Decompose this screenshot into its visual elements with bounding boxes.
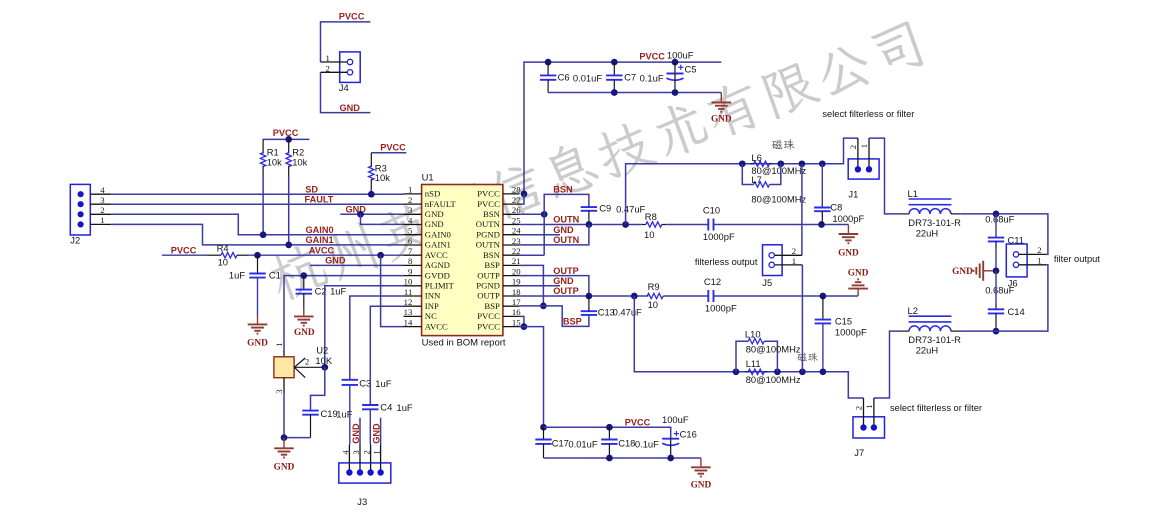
junction C11 top: [993, 211, 1000, 218]
svg-text:GND: GND: [711, 114, 732, 124]
svg-text:22uH: 22uH: [916, 227, 938, 238]
junction C7 bottom: [611, 89, 618, 96]
label R9: [648, 281, 660, 292]
pin 15 stub (U1): [503, 326, 520, 328]
wire PGND stub (pin24): [520, 234, 560, 236]
svg-text:PVCC: PVCC: [273, 128, 299, 138]
net label SD: [305, 184, 318, 194]
note select filterless or filter (top): [822, 109, 914, 119]
op-amp U1 body: [422, 185, 503, 336]
svg-text:1: 1: [792, 256, 796, 266]
net label BSP: [563, 317, 582, 327]
pin 8 stub (U1): [404, 264, 422, 266]
pin name GAIN1 (6): [425, 240, 451, 250]
wire top gnd rail: [548, 92, 721, 94]
ground (snubber N): [839, 225, 859, 244]
capacitor C1: [249, 255, 265, 316]
capacitor C7: [606, 62, 622, 92]
junction C8 top: [819, 160, 826, 167]
wire PGND stub (pin19): [520, 285, 560, 287]
junction R2 top: [285, 136, 292, 143]
label C19: [321, 408, 338, 419]
value 10 (R4): [218, 257, 228, 268]
pin name BSN (26): [483, 209, 501, 219]
label C8: [830, 202, 842, 213]
label R4: [217, 242, 229, 253]
label C15: [835, 316, 852, 327]
pin name PVCC (27): [477, 199, 500, 209]
value 1uF (C4): [397, 402, 413, 413]
wire PLIMIT net: [325, 286, 404, 368]
ground text GND (snubber P): [848, 268, 869, 278]
svg-text:U1: U1: [422, 172, 434, 183]
value 22uH (L1): [916, 227, 938, 238]
svg-text:L10: L10: [745, 329, 761, 340]
wire pin16 to pin15: [520, 316, 524, 326]
wire L2 to J7 pin1: [874, 331, 900, 398]
ground text GND (snubber N): [838, 248, 859, 258]
svg-text:15: 15: [512, 317, 521, 327]
svg-text:1000pF: 1000pF: [705, 303, 737, 314]
pin 3 stub (U1): [404, 213, 422, 215]
pin name GND (3): [425, 209, 444, 219]
resistor R2: [286, 139, 291, 176]
wire R1 to GAIN0: [262, 176, 264, 235]
power port PVCC (R1 R2): [273, 128, 299, 138]
svg-text:GAIN1: GAIN1: [306, 235, 334, 245]
svg-text:AVCC: AVCC: [425, 321, 448, 331]
value 1000pF (C10): [703, 231, 735, 242]
net label OUTP (pin20): [553, 266, 579, 276]
wire J4 pin 2 to GND: [321, 72, 371, 112]
label R1: [267, 147, 279, 158]
value 80@100MHz (L7): [751, 194, 806, 205]
svg-text:C1: C1: [269, 270, 281, 281]
junction R1 GAIN0: [260, 231, 267, 238]
label C17: [552, 438, 569, 449]
pin number 1 (J6): [1037, 256, 1041, 266]
power port PVCC (bottom rail): [625, 417, 651, 427]
resistor R9: [647, 293, 666, 298]
svg-text:22uH: 22uH: [916, 344, 938, 355]
pin name PVCC (16): [477, 311, 500, 321]
wire OUTP row: [520, 295, 648, 297]
svg-text:BSN: BSN: [483, 209, 501, 219]
svg-text:C19: C19: [321, 408, 338, 419]
svg-text:2: 2: [100, 205, 104, 215]
svg-text:0.01uF: 0.01uF: [573, 72, 602, 83]
junction pot gnd: [281, 434, 288, 441]
value 1000pF (C15): [835, 327, 867, 338]
pin number 2 (U2): [305, 357, 309, 367]
pin 23 stub (U1): [503, 244, 520, 246]
svg-text:BSN: BSN: [553, 185, 573, 195]
capacitor C6: [540, 62, 556, 92]
wire C19 to gnd node: [284, 437, 311, 439]
svg-text:OUTP: OUTP: [553, 286, 579, 296]
wire pin17 stub: [520, 305, 544, 307]
wire FAULT net: [111, 203, 403, 205]
svg-text:7: 7: [408, 246, 413, 256]
svg-text:10: 10: [648, 299, 658, 310]
junction J5 pin1 branch: [799, 368, 806, 375]
pin number 1 (J7): [864, 404, 874, 408]
value 1uF (C1): [229, 270, 245, 281]
svg-text:AVCC: AVCC: [425, 250, 448, 260]
label L1: [908, 188, 918, 199]
pin number 1 (J3): [372, 450, 382, 454]
svg-text:OUTN: OUTN: [553, 215, 579, 225]
svg-text:OUTP: OUTP: [477, 291, 500, 301]
svg-text:C7: C7: [624, 71, 636, 82]
wire PVCC rail R1 R2: [263, 138, 310, 140]
label C12: [704, 276, 721, 287]
pin number 14 (U1): [404, 317, 413, 327]
pin 19 stub (U1): [503, 285, 520, 287]
svg-text:2: 2: [1037, 245, 1041, 255]
junction OUTN to beads: [622, 221, 629, 228]
svg-text:2: 2: [848, 145, 858, 149]
label C16: [680, 428, 697, 439]
wire bottom rail: [544, 427, 671, 439]
wire pin3 to pin4: [361, 214, 404, 224]
ferrite bead L7: [742, 164, 781, 187]
label C6: [558, 71, 570, 82]
svg-text:1: 1: [408, 185, 412, 195]
capacitor C8: [814, 164, 830, 225]
svg-text:4: 4: [408, 215, 413, 225]
label C3: [359, 377, 371, 388]
pin 25 stub (U1): [503, 224, 520, 226]
pin name OUTN (23): [476, 240, 501, 250]
pin number 2 (J3): [362, 450, 372, 454]
svg-text:PVCC: PVCC: [477, 199, 500, 209]
pin 7 stub (U1): [404, 254, 422, 256]
svg-text:10: 10: [404, 277, 413, 287]
wire pin22 stub: [520, 254, 545, 256]
svg-text:2: 2: [408, 195, 412, 205]
pin 26 stub (U1): [503, 213, 520, 215]
svg-text:OUTN: OUTN: [553, 235, 579, 245]
ferrite bead L11: [745, 369, 768, 374]
label C9: [599, 202, 611, 213]
svg-text:11: 11: [404, 287, 412, 297]
svg-text:GND: GND: [340, 103, 361, 113]
pin 11 stub (U1): [404, 295, 422, 297]
designator J1: [848, 188, 858, 199]
pin 22 stub (U1): [503, 254, 520, 256]
ground (filter mid): [974, 261, 993, 281]
label C13: [598, 306, 615, 317]
wire INP net: [370, 306, 403, 405]
note Used in BOM report: [422, 337, 506, 348]
svg-text:C17: C17: [552, 438, 569, 449]
svg-text:AGND: AGND: [425, 260, 450, 270]
svg-text:GAIN0: GAIN0: [425, 229, 452, 239]
wire AGND net: [310, 264, 404, 266]
value 0.47uF (C13): [613, 306, 642, 317]
ground (U2): [274, 438, 294, 458]
svg-text:0.01uF: 0.01uF: [568, 439, 597, 450]
net label GND (pin8): [325, 256, 346, 266]
svg-text:3: 3: [100, 195, 104, 205]
pin name INP (12): [425, 301, 439, 311]
svg-text:PVCC: PVCC: [625, 417, 651, 427]
capacitor C9: [581, 207, 597, 224]
pin number 4 (U1): [408, 215, 413, 225]
svg-text:select filterless or filter: select filterless or filter: [822, 109, 914, 119]
svg-text:C3: C3: [359, 377, 371, 388]
pin name PVCC (15): [477, 321, 500, 331]
wire J1 pin1 to L1: [869, 138, 900, 214]
pin 1 stub (U1): [404, 193, 422, 195]
svg-text:J7: J7: [854, 447, 864, 458]
svg-text:INN: INN: [425, 291, 441, 301]
capacitor C13: [581, 311, 597, 315]
junction J5 pin2 branch: [799, 160, 806, 167]
svg-text:0.68uF: 0.68uF: [985, 214, 1014, 225]
pin name GAIN0 (5): [425, 229, 452, 239]
pin number 19 (U1): [512, 277, 521, 287]
pin name BSP (17): [484, 301, 500, 311]
svg-text:BSP: BSP: [484, 301, 500, 311]
svg-text:BSP: BSP: [484, 260, 500, 270]
svg-text:R8: R8: [645, 211, 657, 222]
pin name GND (4): [425, 219, 444, 229]
resistor R3: [369, 153, 374, 188]
junction C17 top: [540, 424, 547, 431]
svg-text:J6: J6: [1008, 277, 1018, 288]
pin number 11 (U1): [404, 287, 412, 297]
svg-text:L7: L7: [751, 174, 761, 185]
wire pin27 branch: [520, 194, 524, 204]
capacitor C16 polarized: [662, 431, 679, 458]
svg-text:10k: 10k: [375, 172, 390, 183]
svg-text:C5: C5: [685, 64, 697, 75]
pin name AGND (8): [425, 260, 450, 270]
pin 21 stub (U1): [503, 264, 520, 266]
label C18: [618, 438, 635, 449]
pin name BSP (21): [484, 260, 500, 270]
pin number 23 (U1): [512, 236, 521, 246]
wire J2.2 to GAIN0: [111, 214, 403, 234]
power port PVCC (J4): [339, 11, 365, 21]
wire J3 pin1 stub: [380, 418, 382, 445]
junction C18 top: [606, 424, 613, 431]
potentiometer U2: [274, 351, 325, 394]
power port PVCC (R4): [171, 246, 197, 256]
svg-text:C18: C18: [618, 438, 635, 449]
pin name PGND (19): [476, 281, 500, 291]
ground (C1): [248, 316, 268, 333]
wire SD net: [111, 193, 403, 195]
svg-text:U2: U2: [316, 344, 328, 355]
pin name OUTP (18): [477, 291, 500, 301]
designator J4: [339, 82, 349, 93]
junction L6 right: [777, 160, 784, 167]
value 100uF (C16): [662, 414, 689, 425]
svg-text:J1: J1: [848, 188, 858, 199]
ground text GND (U2): [274, 462, 295, 472]
svg-text:GAIN1: GAIN1: [425, 240, 451, 250]
svg-text:1: 1: [864, 404, 874, 408]
value 0.1uF (C18): [635, 439, 659, 450]
svg-text:C14: C14: [1008, 306, 1025, 317]
wire R9 to C12: [666, 295, 708, 297]
value 0.47uF (C9): [616, 203, 645, 214]
wire PVCC to J4 pin 1: [321, 22, 371, 62]
power port PVCC (R3): [380, 143, 406, 153]
designator J2: [70, 234, 80, 245]
pin name GVDD (9): [425, 270, 450, 280]
net label BSN: [553, 185, 573, 195]
capacitor C2: [296, 276, 312, 312]
svg-text:C15: C15: [835, 316, 852, 327]
svg-text:J2: J2: [70, 234, 80, 245]
svg-text:PVCC: PVCC: [380, 143, 406, 153]
pin name nFAULT (2): [425, 199, 457, 209]
label cizhu (bottom): [797, 352, 817, 361]
pin name BSN (22): [483, 250, 501, 260]
pin number 24 (U1): [512, 226, 521, 236]
svg-text:23: 23: [512, 236, 521, 246]
ground (bottom rail): [691, 458, 711, 477]
label C5: [685, 64, 697, 75]
wire J6 pin1 to L2: [996, 265, 1048, 331]
pin name PLIMIT (10): [425, 281, 455, 291]
capacitor C12: [708, 290, 713, 302]
wire L1 to J6 pin2: [960, 214, 1048, 255]
svg-text:PVCC: PVCC: [171, 246, 197, 256]
pin 28 stub (U1): [503, 193, 520, 195]
ground text GND (top rail): [711, 114, 732, 124]
svg-text:GND: GND: [952, 267, 973, 277]
designator J7: [854, 447, 864, 458]
note filter output: [1054, 254, 1100, 264]
svg-text:1: 1: [325, 53, 329, 63]
junction C5 bottom: [672, 89, 679, 96]
svg-text:10k: 10k: [292, 156, 307, 167]
wire OUTN beads row: [626, 138, 858, 224]
junction L6 left: [739, 160, 746, 167]
ground (C2): [294, 306, 314, 326]
svg-text:filterless output: filterless output: [695, 257, 758, 267]
svg-text:PGND: PGND: [476, 229, 500, 239]
svg-text:GND: GND: [553, 225, 574, 235]
svg-text:GND: GND: [325, 256, 346, 266]
pin name OUTN (25): [476, 219, 501, 229]
svg-text:6: 6: [408, 236, 413, 246]
svg-text:1000pF: 1000pF: [832, 213, 864, 224]
svg-text:OUTP: OUTP: [477, 270, 500, 280]
label C4: [380, 401, 392, 412]
junction pin15: [521, 323, 528, 330]
pin name NC (13): [425, 311, 437, 321]
svg-text:PVCC: PVCC: [477, 321, 500, 331]
svg-text:AVCC: AVCC: [309, 246, 335, 256]
svg-text:OUTP: OUTP: [553, 266, 579, 276]
pin 17 stub (U1): [503, 305, 520, 307]
svg-text:PGND: PGND: [476, 281, 500, 291]
capacitor C19: [302, 411, 318, 438]
svg-text:PVCC: PVCC: [477, 311, 500, 321]
junction pin3/pin4 gnd: [357, 211, 364, 218]
label L10: [745, 329, 761, 340]
junction C1 top: [254, 252, 261, 259]
wire pin20 to OUTP: [520, 276, 589, 296]
junction L10 left: [733, 368, 740, 375]
pin number 13 (U1): [404, 307, 413, 317]
ground text GND (bottom rail): [691, 480, 712, 490]
value DR73-101-R (L2): [908, 334, 961, 345]
net label GAIN1: [306, 235, 334, 245]
connector J1: [848, 138, 879, 179]
pin number 3 (J3): [351, 450, 361, 454]
pin number 2 (J2): [100, 205, 104, 215]
svg-text:GND: GND: [425, 219, 444, 229]
pin number 2 (J1): [848, 145, 858, 149]
svg-text:OUTN: OUTN: [476, 240, 501, 250]
pin number 4 (J2): [100, 185, 105, 195]
pin 27 stub (U1): [503, 203, 520, 205]
wire INN net: [350, 296, 404, 380]
connector J3: [339, 445, 391, 484]
svg-text:GND: GND: [838, 248, 859, 258]
wire C10 to gnd stub: [714, 224, 849, 226]
svg-text:8: 8: [408, 256, 413, 266]
svg-text:2: 2: [325, 63, 329, 73]
svg-text:L6: L6: [751, 152, 761, 163]
label C14: [1008, 306, 1025, 317]
pin number 18 (U1): [512, 287, 521, 297]
svg-text:14: 14: [404, 317, 413, 327]
pin 14 stub (U1): [404, 326, 422, 328]
wire PVCC rail R3: [371, 152, 406, 154]
wire to J5 pin1: [801, 265, 803, 372]
net label GND (J3 pin1): [371, 423, 381, 444]
wire OUTN row: [520, 224, 642, 226]
pin name AVCC (14): [425, 321, 448, 331]
wire BSN link: [544, 194, 589, 255]
svg-text:INP: INP: [425, 301, 439, 311]
label C7: [624, 71, 636, 82]
pin number 27 (U1): [512, 195, 521, 205]
svg-text:select filterless or filter: select filterless or filter: [890, 403, 982, 413]
junction C5 top: [672, 59, 679, 66]
junction C9 OUTN: [586, 221, 593, 228]
svg-text:C9: C9: [599, 202, 611, 213]
svg-text:1000pF: 1000pF: [835, 327, 867, 338]
pin number 20 (U1): [512, 266, 521, 276]
junction L10 right: [774, 368, 781, 375]
pin number 6 (U1): [408, 236, 413, 246]
note select filterless or filter (bottom): [890, 403, 982, 413]
value 10k (R2): [292, 156, 307, 167]
capacitor C4: [362, 405, 378, 445]
svg-text:C10: C10: [703, 204, 720, 215]
junction filter midpoint: [993, 267, 1000, 274]
svg-text:L2: L2: [908, 305, 918, 316]
net label GND (pin24): [553, 225, 574, 235]
value 0.68uF (C14): [985, 285, 1014, 296]
capacitor C15: [815, 296, 831, 372]
pin number 25 (U1): [512, 215, 521, 225]
pin number 21 (U1): [512, 256, 521, 266]
svg-text:1: 1: [372, 450, 382, 454]
label R8: [645, 211, 657, 222]
svg-text:L1: L1: [908, 188, 918, 199]
junction BSN pin26: [541, 211, 548, 218]
